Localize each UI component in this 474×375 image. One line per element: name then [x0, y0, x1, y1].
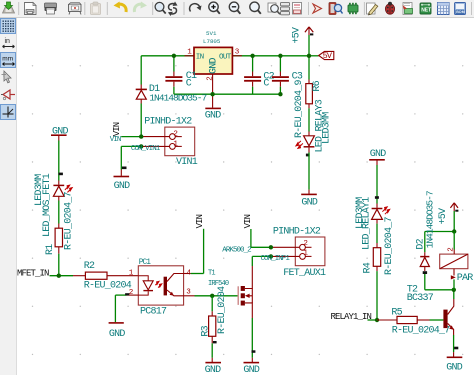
svg-text:BC337: BC337 [407, 293, 434, 304]
footprint editor icon [348, 3, 358, 14]
paste icon (disabled) [91, 2, 101, 15]
svg-text:2: 2 [173, 131, 178, 139]
pin 2 VIN1 [141, 131, 178, 139]
junction node RELAY1_IN [375, 318, 379, 322]
resistor R2 [73, 261, 138, 292]
svg-text:PC1: PC1 [139, 259, 152, 267]
svg-text:GND: GND [208, 57, 219, 74]
junction node FET_AUX1 pin2 [269, 245, 273, 249]
svg-text:in: in [5, 38, 11, 45]
svg-text:2: 2 [129, 289, 134, 297]
wire R4 to RELAY1_IN node [376, 271, 378, 320]
ground above LED_RELAY1 [369, 149, 386, 165]
diode D1 1N4148 [136, 56, 207, 137]
junction node rail/C2 [250, 54, 254, 58]
black tick above VIN1 ground [122, 167, 127, 170]
power +5V right [438, 203, 459, 232]
svg-text:R6: R6 [312, 80, 323, 91]
svg-text:VIN1: VIN1 [176, 157, 198, 168]
svg-text:LED3MM: LED3MM [322, 112, 333, 144]
global label 5V [319, 51, 334, 61]
svg-text:BOM: BOM [456, 10, 464, 14]
svg-text:NET: NET [421, 7, 431, 13]
wire R1 to MFET_IN node [58, 254, 60, 276]
connector FET_AUX1 PINHD-1X2 [273, 226, 326, 278]
wire PC1 pin4 to VIN label [184, 229, 204, 274]
svg-text:R4: R4 [363, 262, 374, 273]
junction node collector [452, 288, 456, 292]
svg-text:GND: GND [205, 110, 222, 121]
svg-text:CON_VIN1: CON_VIN1 [131, 145, 161, 153]
units mm button (selected) [1, 53, 16, 68]
HV orientation button (selected) [1, 105, 16, 120]
svg-text:1: 1 [303, 249, 308, 257]
annotate pencil icon [367, 3, 378, 15]
wire T2 emitter to ground [453, 335, 455, 352]
wire LED to R1 [58, 201, 60, 224]
svg-text:2: 2 [447, 247, 455, 252]
pin 3 regulator OUT [232, 48, 242, 56]
navigate arrow icon [313, 4, 322, 13]
rotate view icon [190, 4, 202, 12]
regulator 5V1 L7805 [194, 47, 232, 74]
svg-text:R-EU_0204: R-EU_0204 [84, 281, 132, 292]
LED LED_MOS_FET1 [34, 173, 72, 237]
zoom fit icon [250, 2, 261, 14]
resistor R5 [377, 307, 450, 336]
BOM icon [455, 3, 466, 15]
print icon [45, 3, 57, 14]
svg-text:2: 2 [303, 240, 308, 248]
diode D2 1N4148 [416, 191, 436, 271]
svg-text:+5V: +5V [438, 208, 449, 225]
junction node rail/C3 [278, 54, 282, 58]
svg-text:GND: GND [301, 197, 318, 208]
wire gnd to LED_MOS_FET1 [58, 141, 60, 181]
svg-text:VIN: VIN [112, 122, 122, 136]
svg-text:IN: IN [196, 53, 204, 61]
wire +5V rail [141, 55, 309, 57]
wire FET_AUX1 pin1 to drain [252, 255, 271, 257]
svg-text:R3: R3 [201, 325, 212, 336]
LED LED_RELAY3 [296, 99, 333, 152]
svg-text:FET_AUX1: FET_AUX1 [283, 268, 326, 279]
page setup icon [25, 3, 37, 15]
wire PC1 pin2 to ground [115, 295, 138, 322]
svg-text:R-EU_0204_9: R-EU_0204_9 [294, 79, 305, 138]
library browser icon [329, 3, 343, 15]
svg-text:2: 2 [206, 76, 214, 81]
zoom selection icon [268, 3, 280, 14]
ground below T1 [243, 358, 260, 375]
junction node gate/R3 [210, 294, 214, 298]
wire D2 to collector node [425, 274, 454, 290]
black tick on T2 emitter [454, 347, 458, 350]
junction node rail/C1 [172, 54, 176, 58]
svg-text:5V1: 5V1 [206, 30, 217, 37]
black tick below D2 [423, 271, 427, 274]
svg-text:3: 3 [186, 288, 191, 296]
svg-text:R-EU_0204_7: R-EU_0204_7 [392, 326, 451, 337]
wire R6 to LED [308, 108, 310, 131]
wire RELAY1_IN to R5 [368, 319, 378, 321]
svg-text:mm: mm [2, 56, 13, 63]
junction node FET_AUX1 pin1 [269, 254, 273, 258]
wire gnd to LED_RELAY1 [376, 165, 378, 204]
power +5V top [292, 27, 314, 56]
svg-text:GND: GND [205, 365, 222, 375]
svg-text:PINHD-1X2: PINHD-1X2 [144, 116, 192, 127]
find icon [155, 2, 166, 13]
svg-text:R5: R5 [391, 307, 402, 318]
redo icon (disabled) [134, 2, 147, 13]
wire FET_AUX1 pin2 to VIN [251, 229, 271, 247]
PC1 internal LED [138, 276, 162, 295]
black tick on T1 source [252, 350, 256, 353]
svg-text:GND: GND [446, 362, 463, 373]
pin 1 regulator IN [185, 48, 195, 56]
ground below PC1 pin2 [109, 323, 126, 340]
LED LED_RELAY1 [355, 197, 390, 250]
ground below LED_RELAY3 [301, 190, 318, 209]
svg-text:OUT: OUT [219, 53, 232, 61]
resistor R1 [45, 191, 75, 255]
svg-text:R-EU_0204_7: R-EU_0204_7 [63, 191, 74, 250]
svg-text:PC817: PC817 [140, 307, 167, 318]
undo icon [114, 2, 127, 13]
transistor T2 BC337 [407, 285, 454, 336]
plot icon [69, 3, 82, 15]
svg-text:GND: GND [109, 329, 126, 340]
junction node VIN1 pin1 [139, 144, 143, 148]
black tick above LED_RELAY1 [375, 196, 379, 199]
wire VIN1 pin1 to ground [121, 146, 141, 169]
capacitor C2 [244, 56, 275, 94]
ERC ladybug icon [385, 2, 394, 14]
svg-text:LED_MOS_FET1: LED_MOS_FET1 [42, 173, 53, 237]
svg-text:L7805: L7805 [203, 38, 221, 45]
svg-text:R2: R2 [84, 261, 95, 272]
cursor shape button [2, 71, 12, 83]
wire PC1 pin3 to gate [184, 295, 238, 297]
wire LED_RELAY3 to ground [308, 153, 310, 190]
zoom out icon [229, 2, 240, 14]
svg-text:PAR: PAR [457, 273, 474, 284]
label 5V1 L7805 [203, 30, 221, 45]
wire T2 collector up [453, 290, 455, 299]
junction node relay top [452, 229, 456, 233]
svg-text:1: 1 [187, 48, 192, 56]
pin 1 FET_AUX1 [271, 249, 309, 257]
svg-text:MFET_IN: MFET_IN [17, 269, 49, 279]
pin 2 relay top [447, 232, 455, 255]
transistor T1 IRF540 [208, 266, 252, 318]
ground above LED_MOS_FET1 [51, 127, 69, 141]
netlist icon [420, 3, 431, 14]
grid toggle button (selected) [1, 19, 16, 34]
svg-text:LED_RELAY1: LED_RELAY1 [361, 197, 372, 250]
zoom in icon [209, 2, 220, 14]
svg-text:VIN: VIN [195, 214, 205, 228]
units inch button [3, 38, 15, 48]
wire +5V node to D2 [425, 231, 454, 233]
resistor R6 [294, 56, 323, 138]
relay K1 coil [440, 254, 468, 269]
svg-text:3: 3 [235, 48, 240, 56]
junction node gndrail/C3 [278, 92, 282, 96]
ground below T2 [446, 352, 463, 373]
leave sheet icon [293, 3, 302, 15]
black tick above LED_MOS_FET1 [59, 173, 63, 176]
svg-text:C: C [263, 79, 269, 90]
wire LED_RELAY1 to R4 [376, 224, 378, 243]
hierarchy sheets icon [281, 3, 290, 15]
svg-text:1N4148DO35-7: 1N4148DO35-7 [149, 93, 206, 104]
fields table icon [438, 3, 450, 15]
junction node VIN1 pin2 [139, 134, 143, 138]
resistor R4 [363, 216, 395, 275]
svg-text:CON_INP1: CON_INP1 [261, 255, 291, 263]
wire GND rail [174, 93, 281, 95]
hidden pins button [1, 90, 15, 100]
svg-text:R-EU_0204_7: R-EU_0204_7 [384, 216, 395, 275]
svg-text:1: 1 [129, 270, 134, 278]
svg-text:1: 1 [173, 140, 178, 148]
svg-text:R-EU_0204: R-EU_0204 [217, 286, 228, 334]
junction node gndrail/reg [210, 92, 214, 96]
capacitor C3 [272, 56, 303, 94]
save icon [3, 2, 15, 13]
svg-text:T1: T1 [208, 270, 215, 278]
pin 2 FET_AUX1 [271, 240, 309, 248]
black tick on PC1 pin2 wire [125, 293, 129, 295]
svg-text:C: C [186, 79, 192, 90]
PC1 phototransistor [164, 274, 184, 296]
svg-text:+5V: +5V [292, 27, 303, 44]
pin 2 regulator GND [206, 74, 214, 94]
junction node MFET_IN [57, 274, 61, 278]
ground below VIN1 pin1 [114, 170, 131, 193]
wire 5V label stub [309, 55, 319, 57]
ground below R3 [205, 358, 222, 375]
wire T1 drain up [251, 256, 253, 266]
junction node rail/R6/+5V [307, 54, 311, 58]
wire VIN to pin2 [121, 136, 141, 138]
svg-text:GND: GND [370, 149, 387, 160]
svg-text:GND: GND [114, 181, 131, 192]
wire R3 to ground [211, 343, 213, 358]
optocoupler PC1 body [138, 259, 183, 318]
wire MFET_IN to R2 [50, 275, 74, 277]
resistor R3 [201, 286, 228, 343]
svg-text:R1: R1 [45, 244, 56, 255]
wire R5 to T2 base [430, 319, 444, 321]
capacitor C1 [165, 56, 197, 94]
black tick below R3 [213, 341, 217, 343]
wire T1 source to ground [251, 318, 253, 358]
BOM-generate icon [403, 3, 413, 15]
ground below regulator [205, 94, 222, 121]
svg-text:ARK500_2: ARK500_2 [222, 247, 251, 255]
svg-text:VIN: VIN [110, 136, 121, 144]
svg-text:IRF540: IRF540 [208, 280, 229, 288]
pin 1 VIN1 [141, 140, 178, 148]
black tick below LED_RELAY3 [306, 154, 310, 157]
svg-text:PINHD-1X2: PINHD-1X2 [273, 226, 321, 237]
svg-text:1N4148DO35-7: 1N4148DO35-7 [424, 191, 435, 248]
svg-text:GND: GND [243, 365, 260, 375]
connector VIN1 PINHD-1X2 [144, 116, 198, 168]
pin 1 relay bottom [451, 269, 456, 290]
svg-text:VIN: VIN [243, 214, 253, 228]
svg-text:RELAY1_IN: RELAY1_IN [331, 312, 372, 322]
redraw refresh icon [168, 2, 178, 17]
